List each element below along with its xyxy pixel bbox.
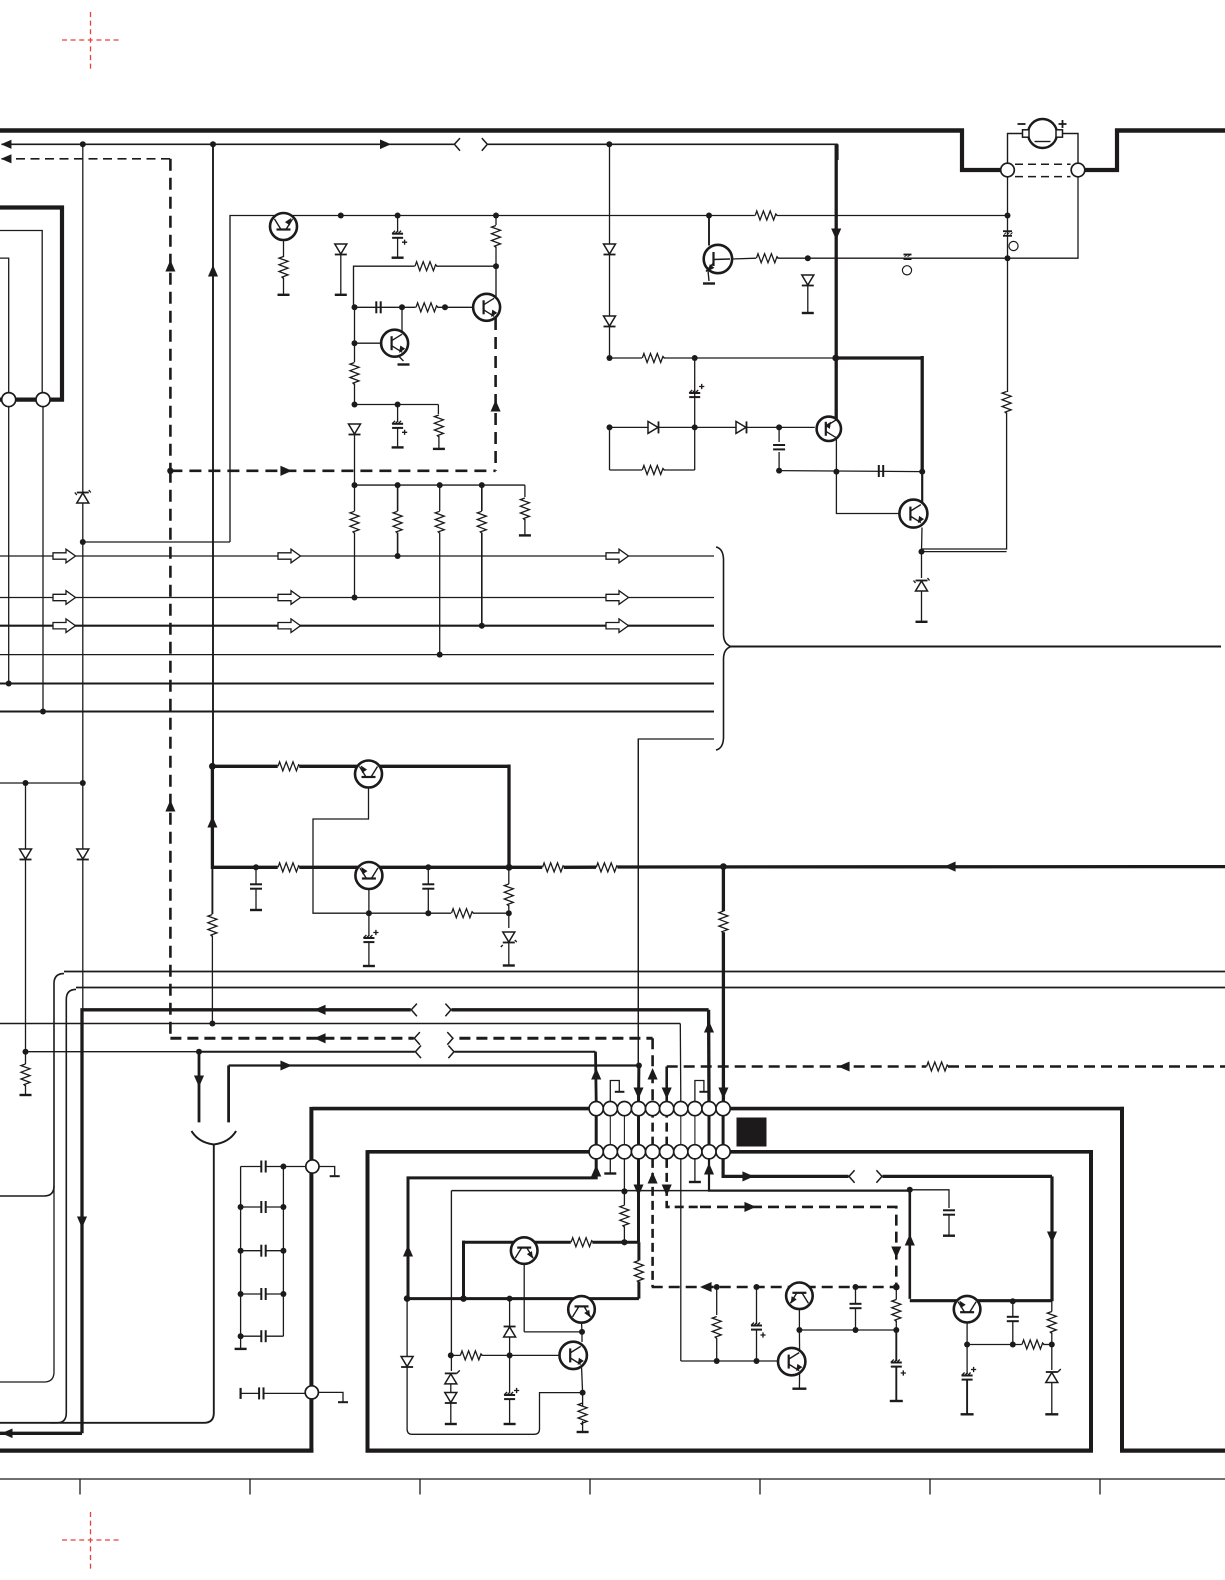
junction ladder left bottom	[238, 1333, 244, 1339]
wire dashed bus y1038	[170, 1037, 652, 1040]
transistor Q3	[473, 294, 500, 321]
wire Q2 collector riser	[401, 307, 403, 331]
wire col5 to bar	[524, 519, 526, 535]
wire R26 leads	[623, 1191, 625, 1242]
connector pin row1-5	[646, 1102, 660, 1116]
motor M1 left terminal	[1023, 130, 1030, 137]
diode D14	[445, 1393, 457, 1404]
terminal bar below D11	[916, 621, 928, 623]
arrow bus A left end	[1, 140, 11, 149]
transistor Q13 inline	[954, 1296, 981, 1323]
IC block filled square	[737, 1118, 767, 1147]
arrow dashed y470.8 right	[280, 466, 292, 476]
wire brace output y646	[731, 646, 1221, 648]
resistor R8v	[393, 511, 402, 533]
arrow dashed x896 down	[891, 1246, 901, 1258]
resistor R25	[927, 1062, 949, 1071]
transistor Q6	[899, 500, 927, 528]
wire x582 down to Q11c	[581, 1332, 583, 1342]
terminal bar below C23	[961, 1413, 974, 1415]
junction y307 x355	[352, 304, 358, 310]
junction y913 x428	[425, 910, 431, 916]
wire pin7 down	[680, 1159, 682, 1361]
connector pin P3	[306, 1160, 319, 1173]
resistor R14	[642, 466, 664, 475]
capacitor C7 test point	[1003, 231, 1013, 236]
wire Q4 out right	[732, 257, 756, 260]
wire Q7 base path	[313, 788, 451, 914]
wire pin column 5	[651, 1109, 654, 1152]
wire bus y1051 med	[199, 1051, 596, 1053]
terminal bar below D9	[802, 312, 814, 314]
connector pin row2-10	[716, 1145, 730, 1159]
bottom line right segment	[1120, 1448, 1225, 1452]
terminal bar below C24	[504, 1423, 516, 1425]
junction y215 x341	[338, 213, 344, 219]
wire R28 leads	[895, 1287, 897, 1330]
junction y215 x1007	[1005, 213, 1011, 219]
brace merging buses	[716, 547, 731, 750]
wire brace stem	[0, 1145, 214, 1423]
connector pin row1-4	[631, 1102, 645, 1116]
arrow dashed y1038 left flow	[314, 1033, 326, 1043]
no-connect flag pin8	[695, 1081, 709, 1102]
wire C18 leads	[855, 1287, 857, 1330]
wire R34 leads	[451, 1354, 510, 1356]
wire x82 bottom arrow line	[0, 1432, 82, 1435]
wire y1010 to pin9	[707, 1010, 711, 1102]
wire Q12 collector up	[798, 1330, 800, 1352]
ruler tick 1	[79, 1479, 81, 1495]
wire x909 down thick	[908, 1190, 911, 1299]
wire R18 area y913	[473, 912, 509, 914]
wire bus y1051 thin	[26, 1051, 200, 1053]
connector pin J1	[2, 393, 16, 407]
junction col3 y654	[437, 652, 443, 658]
junction y471 x779	[776, 468, 782, 474]
junction y867 x256	[253, 864, 259, 870]
wire C10 leads	[427, 867, 429, 913]
capacitor C24 electrolytic	[504, 1388, 519, 1399]
inner box right wall	[1089, 1150, 1093, 1452]
junction ladder right y1294	[280, 1291, 286, 1297]
junction col2 y556	[395, 553, 401, 559]
wire R27 leads	[637, 1242, 640, 1298]
arrow y1065 right flow	[280, 1060, 292, 1070]
open arrow y556 b	[278, 549, 301, 563]
capacitor CL3	[261, 1245, 265, 1257]
wire motor left lead	[1008, 134, 1023, 165]
capacitor C10	[422, 884, 434, 888]
wire D11 to bar	[921, 591, 923, 622]
diode D10	[349, 424, 361, 435]
wire Q5 emitter down	[835, 439, 837, 472]
arrow y867 left flow	[944, 862, 956, 872]
arrow x408 up	[403, 1245, 413, 1257]
wire thick y358 right	[836, 356, 923, 359]
wire x639 to pin4	[637, 1066, 640, 1102]
junction y266 x496	[493, 263, 499, 269]
junction y1287 x896	[893, 1284, 900, 1291]
junction x609 y358	[607, 355, 613, 361]
wire ladder right rail	[282, 1167, 284, 1337]
wire bus A y144	[2, 143, 838, 145]
transistor Q9 inline	[511, 1237, 538, 1264]
terminal bar C17 left	[240, 1388, 242, 1399]
wire pin8 stub	[694, 1159, 696, 1182]
wire thick rail x212 upper	[211, 764, 214, 870]
junction y485 x354	[352, 482, 358, 488]
wire Q6 emitter	[921, 528, 924, 552]
resistor R20v	[208, 915, 217, 937]
resistor R27v	[634, 1261, 643, 1283]
wire Q2 base	[355, 342, 382, 344]
wire dashed y1206	[700, 1207, 896, 1287]
wire R24 leads	[25, 1052, 27, 1095]
connector pin P1 motor minus	[1001, 163, 1015, 177]
wire C24 to bar	[509, 1400, 511, 1424]
diode D15	[504, 1327, 516, 1338]
arrow bus A flow right	[380, 140, 391, 150]
transistor Q11 inline	[786, 1283, 813, 1310]
resistor R7h	[755, 211, 777, 220]
wire node y783	[0, 782, 83, 784]
wire rail x230 and corner	[230, 216, 341, 543]
wire bank col5	[524, 485, 526, 497]
wire Q9 collector down	[523, 1264, 525, 1332]
junction ladder right y1166	[280, 1164, 286, 1170]
wire thick x463	[462, 1241, 465, 1299]
junction col4 y625	[479, 623, 485, 629]
capacitor C23 electrolytic	[962, 1367, 977, 1380]
transistor Q10 inline	[568, 1296, 595, 1323]
capacitor C6 test point	[904, 255, 912, 260]
terminal bar below C11	[363, 965, 375, 967]
connector pin row1-6	[660, 1102, 674, 1116]
wire C22 leads	[1012, 1301, 1014, 1344]
wire pin column 3	[623, 1109, 625, 1152]
wire Q8 base	[368, 889, 370, 913]
capacitor C22	[1007, 1317, 1019, 1321]
junction ladder left y1207	[238, 1204, 244, 1210]
wire thick y867 right	[509, 865, 1225, 869]
junction x582 y1331	[579, 1329, 585, 1335]
wire R19 leads	[508, 867, 510, 913]
capacitor C11 electrolytic	[363, 930, 378, 942]
open arrow y556 a	[53, 549, 76, 563]
wire R33 leads	[582, 1393, 584, 1432]
capacitor C5	[879, 465, 883, 477]
wire gray x638 upper	[637, 739, 639, 1066]
junction dashed corner x170 y470	[167, 468, 173, 474]
wire Q1 emitter down	[283, 240, 285, 257]
wire motor rail x1077	[1077, 177, 1078, 258]
wire bus y683	[0, 683, 714, 685]
junction y1361 x716	[714, 1358, 720, 1364]
arrow pin6 col down	[662, 1184, 672, 1196]
junction ladder left y1250	[238, 1248, 244, 1254]
junction y1301 x1012	[1010, 1298, 1016, 1304]
wire node y471	[779, 471, 922, 472]
diode D5	[20, 849, 32, 860]
junction y913 x369	[366, 910, 372, 916]
wire border notch bottom-right	[1085, 168, 1120, 172]
wire x582 to x539 jog	[407, 1299, 582, 1435]
capacitor CL1	[261, 1161, 265, 1173]
connector pin row2-2	[603, 1145, 617, 1159]
wire D13-D14	[450, 1384, 452, 1394]
transistor Q8	[355, 862, 382, 889]
ruler tick 4	[589, 1479, 591, 1495]
junction y215 x709	[706, 213, 712, 219]
wire bus y597	[0, 597, 714, 599]
wire dashed rail x170 lower	[169, 471, 172, 1039]
wire thick y1300	[910, 1299, 1052, 1302]
connector pin row2-8	[688, 1145, 702, 1159]
test point circle TP1	[902, 266, 911, 275]
wire CL1 leads	[241, 1166, 284, 1168]
diode D7	[648, 421, 659, 433]
wire rail x83 upper	[82, 144, 84, 1010]
wire x212 resistor tail	[211, 936, 213, 1024]
wire node y542	[83, 541, 230, 543]
wire rail x213	[212, 144, 214, 763]
junction y1051 x25	[23, 1049, 29, 1055]
wire inside box to pin J2	[0, 258, 9, 393]
resistor R23v	[719, 911, 728, 933]
wire bus y1010 thick	[82, 1010, 709, 1434]
zener diode D4	[75, 490, 91, 503]
arrow pin4 col down	[633, 1184, 643, 1196]
wire rail x25	[25, 783, 27, 1052]
arrow rail x836 down	[831, 228, 841, 240]
arrow x82 exit left	[2, 1429, 13, 1439]
wire Q11 emitter	[798, 1309, 800, 1330]
junction Q2 base	[352, 340, 358, 346]
connector pin row2-9	[702, 1145, 716, 1159]
wire Q14 base	[510, 1354, 560, 1356]
wire x1052 thick	[1050, 1176, 1053, 1301]
registration crosshair top-left	[62, 12, 119, 69]
junction x624 y1242	[621, 1239, 627, 1245]
open arrow y625 c	[606, 619, 629, 633]
resistor R22	[596, 863, 618, 872]
resistor R33v	[578, 1403, 587, 1425]
resistor R6v	[434, 415, 443, 437]
brace under stubs	[192, 1131, 237, 1145]
wire Q14 emitter	[582, 1366, 583, 1393]
connector pin row1-8	[688, 1102, 702, 1116]
wire x354 D10 to bank	[354, 435, 356, 486]
junction y1344 x1051	[1049, 1342, 1055, 1348]
junction y427 x609	[607, 424, 613, 430]
open arrow y625 a	[53, 619, 76, 633]
wire dashed y470.8	[170, 469, 495, 472]
diode D2	[604, 244, 616, 255]
wire loop bottom y470	[610, 469, 695, 471]
wire row1 bus right	[730, 1107, 1124, 1111]
wire border notch left vertical	[960, 129, 964, 173]
arrow dashed rail x170 up1	[165, 260, 175, 272]
wire bus y1023 gray	[0, 1023, 680, 1025]
wire thin y1190	[451, 1190, 709, 1192]
junction rail x83 y783	[80, 780, 86, 786]
wire thick y1065 stub	[227, 1066, 230, 1123]
terminal bar pin8	[689, 1181, 701, 1183]
capacitor C2	[376, 301, 380, 313]
diode D1	[335, 244, 347, 255]
wire row1 bus left	[313, 1107, 590, 1111]
wire bank col3	[439, 485, 441, 654]
wire pin5 down dashed	[651, 1159, 654, 1287]
wire C8 leads	[397, 405, 399, 448]
wire border notch bottom-left	[960, 168, 1001, 172]
arrow x596 up upper	[591, 1068, 601, 1080]
wire thick y867 left	[212, 866, 509, 869]
wire bank col2	[397, 485, 399, 556]
terminal bar pin2	[604, 1172, 616, 1174]
arrow y1176 right flow	[742, 1171, 754, 1181]
wire dashed y1038 to pin5	[651, 1038, 654, 1101]
junction y215 x397	[395, 213, 401, 219]
resistor R7v	[350, 511, 359, 533]
diode D6	[77, 849, 89, 860]
ruler tick 3	[419, 1479, 421, 1495]
ruler tick 2	[249, 1479, 251, 1495]
wire CL2 leads	[241, 1206, 284, 1208]
junction x624 y1191	[621, 1188, 627, 1194]
connector pin row2-1	[589, 1145, 603, 1159]
wire node y358	[610, 357, 836, 359]
wire dashed y1066 right	[667, 1065, 1225, 1068]
wire pin1 down thick	[408, 1159, 596, 1297]
wire pin J1 down	[8, 407, 10, 684]
zener diode D12	[501, 932, 517, 947]
ground stub P4	[318, 1392, 348, 1402]
capacitor C1 electrolytic	[392, 231, 407, 245]
terminal bar below R11v	[519, 534, 531, 536]
wire Q13 base down	[966, 1323, 968, 1345]
wire thick x723	[722, 867, 725, 1102]
terminal bar ladder	[235, 1348, 247, 1350]
junction ladder right y1250	[280, 1248, 286, 1254]
wire pin6 down dashed	[667, 1159, 700, 1207]
junction y427 x695	[692, 424, 698, 430]
resistor R1	[279, 257, 288, 279]
arrow rail x213 up	[208, 265, 218, 277]
arrow x82 down	[77, 1216, 87, 1228]
junction bus A x609	[606, 141, 612, 147]
bottom line left segment	[0, 1448, 313, 1452]
capacitor CL4	[261, 1288, 265, 1300]
motor M1 right terminal	[1056, 130, 1063, 137]
wire bus y556	[0, 555, 714, 557]
arrow x652 up upper	[648, 1068, 658, 1080]
wire Q3 collector riser	[495, 266, 497, 297]
ruler tick 5	[759, 1479, 761, 1495]
wire Q6 collector	[921, 472, 923, 502]
wire R31 leads	[1051, 1301, 1053, 1344]
resistor R32	[571, 1238, 593, 1247]
connector pin row2-4	[631, 1145, 645, 1159]
resistor R12	[756, 254, 778, 263]
registration crosshair bottom-left	[62, 1512, 119, 1569]
wire x836 to Q6 base	[836, 472, 899, 514]
terminal bar below C8	[392, 446, 404, 448]
terminal bar below D1	[335, 294, 347, 296]
wire thick y1065	[229, 1064, 639, 1066]
resistor R16	[278, 762, 300, 771]
connector pin P2 motor plus	[1071, 163, 1085, 177]
junction y1298 x509	[507, 1296, 513, 1302]
junction y1190 x624	[621, 1188, 627, 1194]
ruler tick 7	[1099, 1479, 1101, 1495]
resistor R31v	[1047, 1312, 1056, 1334]
wire Q12 emitter	[798, 1372, 800, 1389]
wire CL3 leads	[241, 1250, 284, 1252]
transistor Q1	[270, 213, 297, 240]
wire motor right lead	[1063, 134, 1079, 165]
resistor R19v	[504, 884, 513, 906]
junction y1287 x756	[754, 1284, 760, 1290]
wire D14 to bar	[450, 1403, 452, 1424]
connector pin P4	[305, 1386, 318, 1399]
junction y783 x25	[23, 780, 29, 786]
transistor Q14	[560, 1342, 587, 1369]
wire x695 down	[694, 358, 696, 427]
connector pin row2-5	[646, 1145, 660, 1159]
junction y867 x428	[425, 864, 431, 870]
wire x779 cap branch	[778, 427, 780, 470]
wire motor rail x1007	[1007, 177, 1009, 392]
wire dashed connector link lower	[1015, 176, 1071, 178]
wire ladder top to pin	[283, 1166, 305, 1168]
no-connect flag pin2	[610, 1081, 624, 1102]
wire dashed rail x170 upper	[169, 159, 172, 471]
junction x212 y1023	[209, 1021, 215, 1027]
wire pin column 4	[637, 1109, 640, 1152]
wire y551 to x1006	[922, 551, 1007, 553]
zener diode D13	[445, 1370, 460, 1384]
junction x921 y551	[919, 549, 925, 555]
wire dashed bus B y159	[2, 158, 171, 160]
wire D17 lead	[1051, 1345, 1053, 1371]
wire x695 y427-470	[694, 427, 696, 470]
resistor R24v	[21, 1064, 30, 1086]
resistor R30	[1022, 1340, 1044, 1349]
capacitor C21 electrolytic	[891, 1360, 906, 1376]
resistor R4	[416, 303, 438, 312]
wire pin column 1	[595, 1109, 598, 1152]
junction y1287 x855	[853, 1284, 859, 1290]
wire pin column 8	[694, 1109, 696, 1152]
junction y471 x836	[833, 469, 839, 475]
capacitor CL2	[261, 1201, 265, 1213]
wire node y1344	[967, 1344, 1052, 1346]
arrow pin5 col up	[648, 1172, 658, 1184]
resistor R2	[492, 226, 501, 248]
junction y1361 x756	[754, 1358, 760, 1364]
transistor Q5	[817, 417, 841, 441]
wire x354 between	[354, 307, 356, 362]
wire node y266	[354, 266, 497, 307]
resistor R29v	[712, 1317, 721, 1339]
wire C19 to bar	[948, 1215, 950, 1236]
open arrow y556 c	[606, 549, 629, 563]
wire R29 tail	[716, 1338, 718, 1361]
terminal bar below R24v	[20, 1094, 32, 1096]
junction y1330 x855	[853, 1327, 859, 1333]
